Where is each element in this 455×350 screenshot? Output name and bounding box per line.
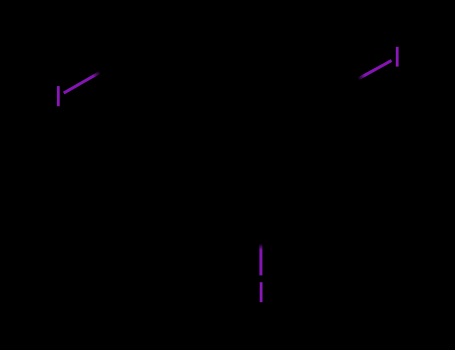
- iodine label I3: [260, 282, 263, 302]
- bond CH2-I1 purple half: [64, 72, 101, 93]
- iodine label I2: [396, 47, 399, 67]
- benzene ring (black bonds, invisible on background): [197, 56, 325, 204]
- wire: bond C6-CH2 (black, invisible): [133, 56, 197, 93]
- bond C2-I2 purple half: [358, 61, 392, 80]
- wire: black half of bond CH2-I1: [98, 56, 133, 75]
- bond C4-I3 purple half: [259, 244, 262, 276]
- wire: black half of bond C4-I3: [259, 204, 262, 244]
- wire: black half of bond C2-I2: [325, 75, 358, 93]
- iodine label I1: [57, 86, 60, 106]
